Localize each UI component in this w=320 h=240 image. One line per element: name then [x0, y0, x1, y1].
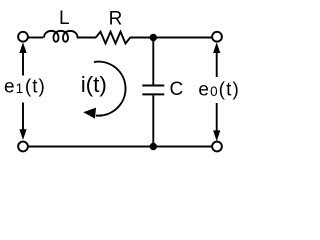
- svg-text:e0(t): e0(t): [198, 79, 240, 100]
- voltage arrow e0 up: [216, 52, 218, 77]
- capacitor C: [142, 85, 164, 87]
- wire: resistor to output terminal (top rail): [130, 37, 212, 39]
- wire top-left: input terminal to inductor: [28, 37, 44, 39]
- svg-text:C: C: [170, 79, 184, 100]
- terminal circle e0 top: [212, 32, 222, 42]
- terminal circle e1 top: [18, 32, 28, 42]
- svg-text:L: L: [59, 8, 70, 29]
- terminal circle e1 bottom: [18, 142, 28, 152]
- voltage arrow e1 down: [22, 103, 24, 131]
- wire: capacitor branch upper: [152, 38, 154, 85]
- svg-text:e1(t): e1(t): [4, 77, 46, 98]
- resistor R: [96, 32, 130, 44]
- terminal circle e0 bottom: [212, 142, 222, 152]
- svg-text:R: R: [109, 9, 123, 30]
- wire: inductor to resistor: [77, 37, 96, 39]
- junction node top: [150, 34, 157, 41]
- wire: capacitor branch lower: [152, 95, 154, 146]
- current loop arrow i(t): [94, 62, 126, 116]
- inductor L: [44, 31, 78, 42]
- junction node bottom: [150, 143, 157, 150]
- bottom wire rail: [28, 146, 213, 148]
- voltage arrow e1 up: [22, 52, 24, 76]
- voltage arrow e0 down: [216, 103, 218, 131]
- svg-text:i(t): i(t): [81, 72, 107, 97]
